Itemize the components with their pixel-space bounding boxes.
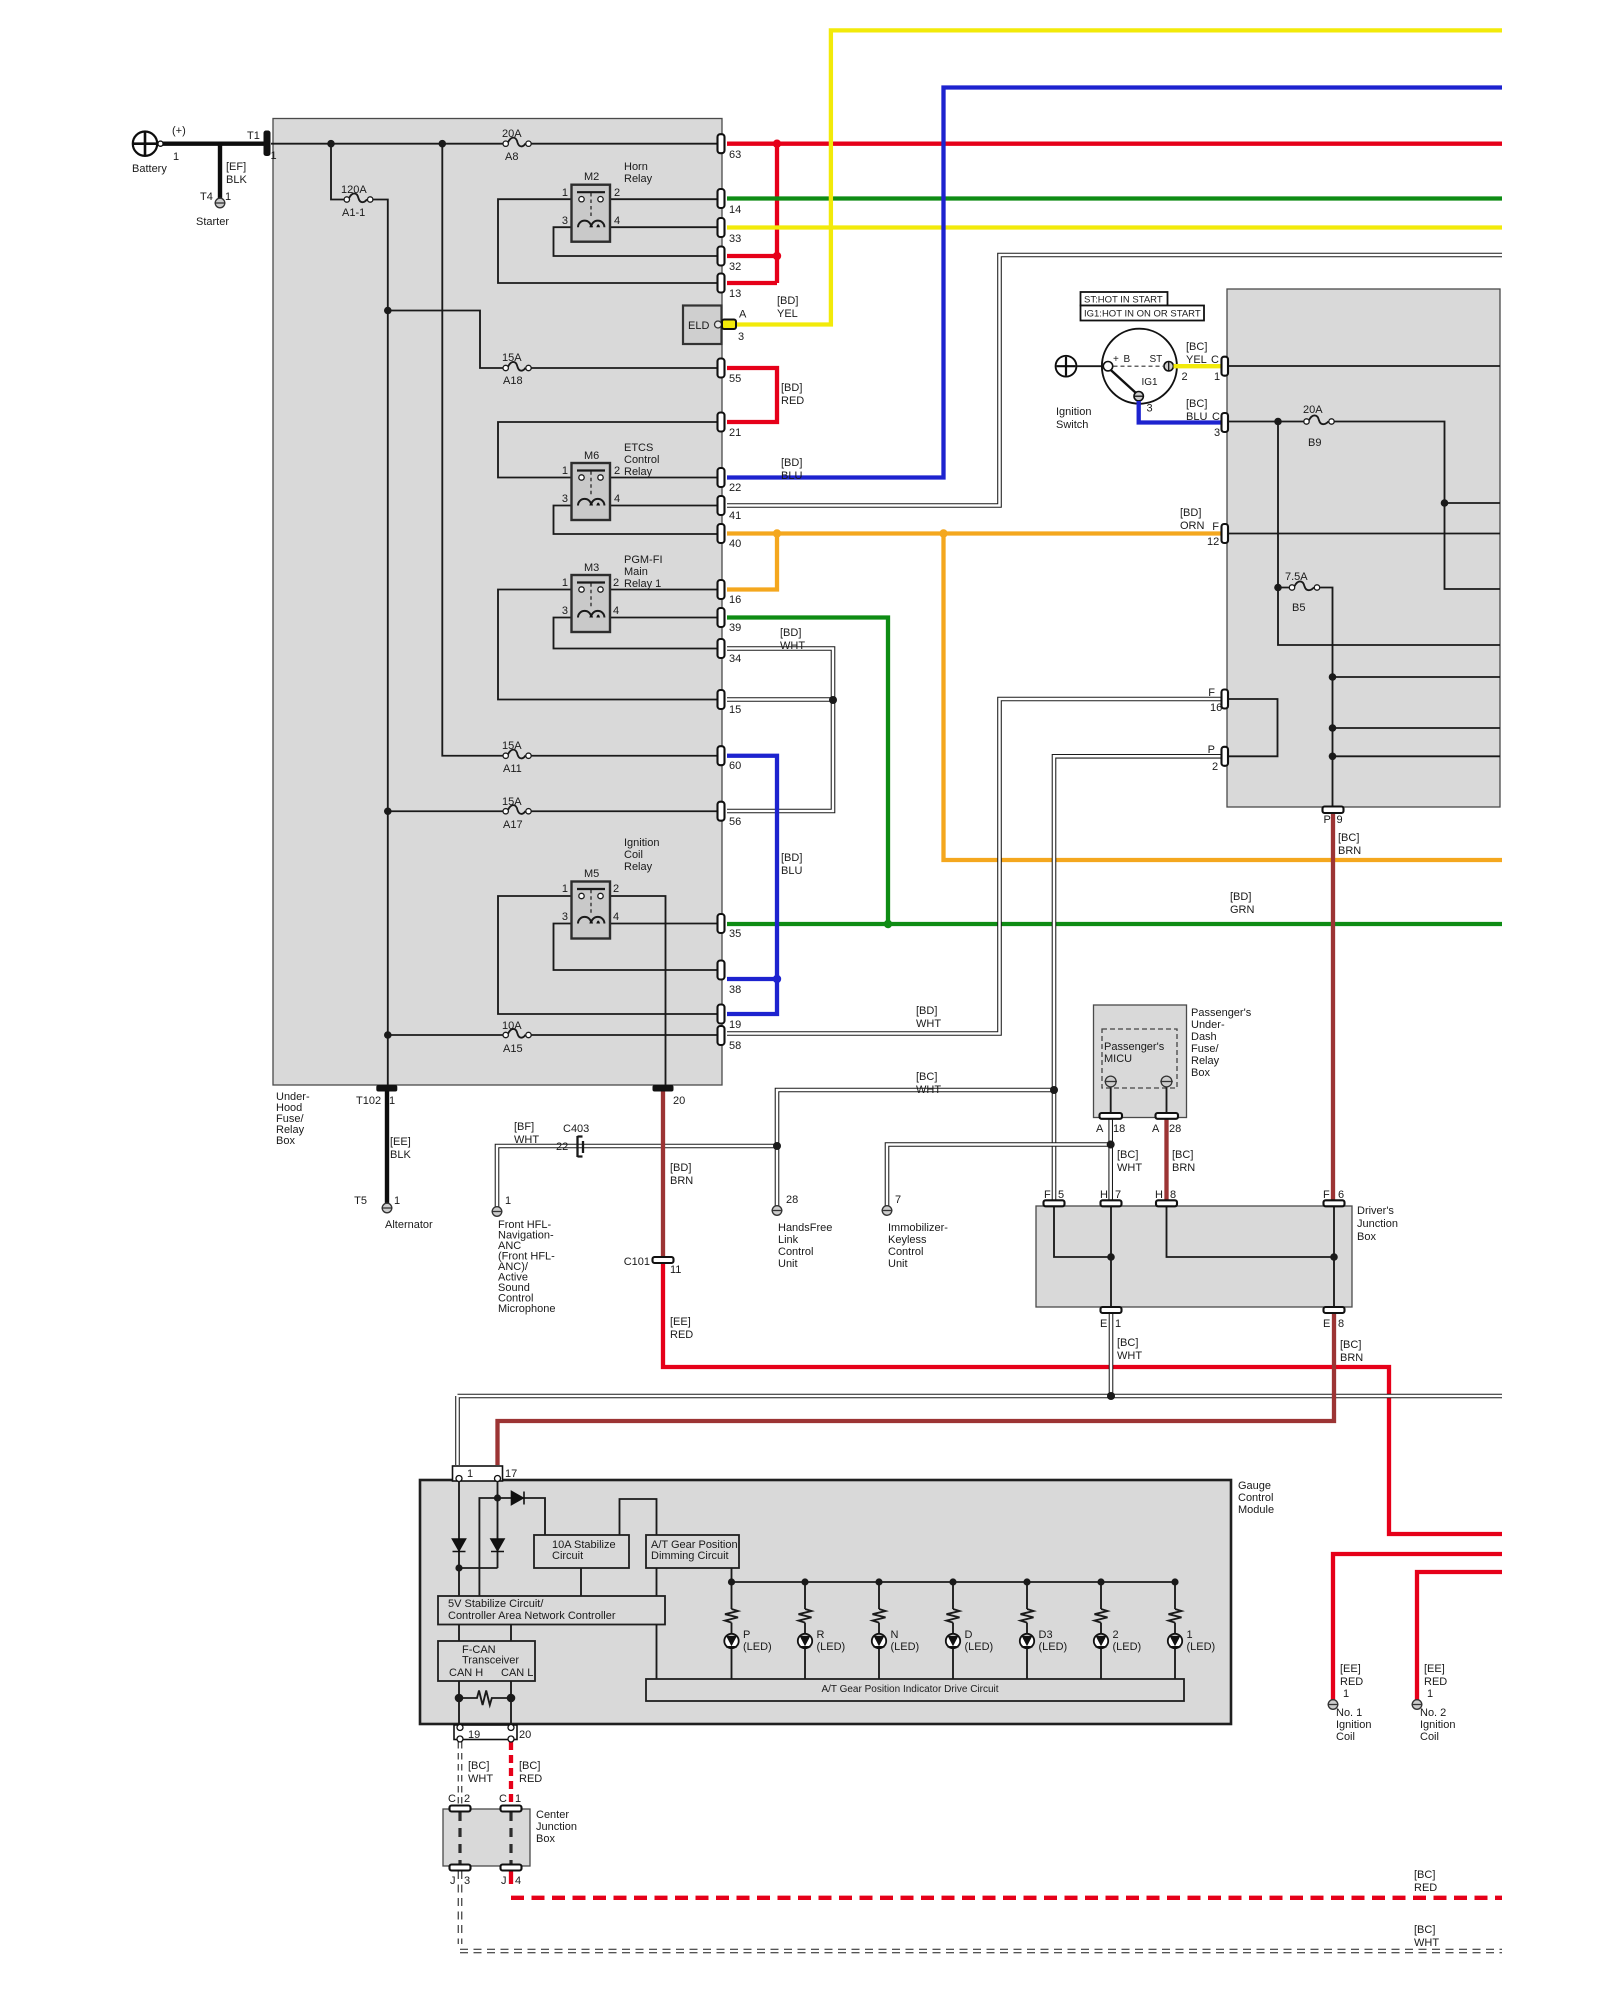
label fuse 15A A17: [502, 796, 523, 831]
svg-text:3: 3: [1147, 403, 1153, 415]
wire rail to 15A A18 to pin 55: [388, 311, 717, 369]
svg-text:RED: RED: [519, 1773, 542, 1785]
node red junction at pin32: [773, 252, 781, 260]
label J3 J4: [450, 1875, 521, 1887]
node white junction A18 line: [1107, 1141, 1115, 1149]
svg-text:28: 28: [1169, 1123, 1181, 1135]
svg-text:BLU: BLU: [781, 470, 802, 482]
svg-text:GRN: GRN: [1230, 904, 1255, 916]
svg-text:[EE]: [EE]: [1340, 1663, 1361, 1675]
wire C3 down to B5 fuse and right: [1278, 422, 1500, 646]
wire blue IG1 to C3: [1139, 401, 1221, 423]
svg-text:M6: M6: [584, 450, 599, 462]
svg-text:M2: M2: [584, 171, 599, 183]
svg-text:P: P: [1324, 814, 1331, 826]
svg-text:No. 1: No. 1: [1336, 1707, 1362, 1719]
svg-text:1: 1: [562, 883, 568, 895]
svg-text:ETCS: ETCS: [624, 442, 653, 454]
pin A18: [1100, 1113, 1123, 1119]
wire 5V box to indicator box: [656, 1625, 658, 1680]
pin 60: [718, 746, 725, 765]
fuse 15A A17: [503, 805, 531, 814]
label BC YEL C1: [1186, 341, 1220, 383]
node rail junction A15 branch: [384, 1031, 392, 1039]
svg-text:22: 22: [556, 1141, 568, 1153]
wire white E1 net to gauge pin 1: [458, 1313, 1503, 1466]
under-dash fuse/relay box (right): [1227, 289, 1500, 807]
svg-text:1: 1: [515, 1793, 521, 1805]
node red junction at pin63 line: [773, 140, 781, 148]
svg-text:F: F: [1212, 521, 1219, 533]
wire dimming box to led bus: [731, 1568, 733, 1582]
svg-text:Horn: Horn: [624, 161, 648, 173]
pin 21: [718, 413, 725, 432]
label fuse 15A A11: [502, 740, 522, 775]
svg-text:(LED): (LED): [965, 1641, 994, 1653]
node white junction E1: [1107, 1392, 1115, 1400]
node blue junction pin38: [773, 975, 781, 983]
svg-text:CAN H: CAN H: [449, 1667, 483, 1679]
svg-text:3: 3: [562, 911, 568, 923]
svg-text:Immobilizer-: Immobilizer-: [888, 1222, 948, 1234]
svg-text:35: 35: [729, 928, 741, 940]
fuse 15A A18: [503, 362, 531, 371]
wire white immobilizer line: [887, 1145, 1111, 1207]
svg-text:B9: B9: [1308, 437, 1321, 449]
wire brown A28 to H8: [1164, 1119, 1168, 1202]
svg-text:YEL: YEL: [777, 308, 798, 320]
svg-text:BLU: BLU: [1186, 411, 1207, 423]
box A/T gear position indicator drive circuit: [646, 1679, 1184, 1701]
label BD BRN pin20: [670, 1162, 693, 1187]
svg-text:BLK: BLK: [390, 1149, 411, 1161]
svg-text:YEL: YEL: [1186, 354, 1207, 366]
wire yellow ST to C1: [1174, 364, 1222, 368]
svg-text:[EF]: [EF]: [226, 161, 246, 173]
svg-text:2: 2: [614, 465, 620, 477]
label F16 pin: [1208, 687, 1222, 714]
label LEDs: [743, 1629, 1215, 1653]
wire M3 pin1 to pin 15: [498, 590, 717, 700]
svg-text:(LED): (LED): [891, 1641, 920, 1653]
svg-text:Control: Control: [778, 1246, 813, 1258]
label EE BLK alternator: [390, 1136, 411, 1161]
terminal microphone 1: [492, 1207, 503, 1217]
connector block gauge pins 19/20: [454, 1725, 517, 1740]
svg-text:WHT: WHT: [1117, 1350, 1142, 1362]
connector pin 20 bottom: [653, 1085, 674, 1092]
pin P2: [1222, 747, 1229, 766]
box A/T gear position dimming circuit: [646, 1535, 739, 1568]
pin 55: [718, 359, 725, 378]
svg-text:Dash: Dash: [1191, 1031, 1217, 1043]
svg-text:WHT: WHT: [780, 640, 805, 652]
svg-text:Relay 1: Relay 1: [624, 578, 661, 590]
svg-text:[BC]: [BC]: [1186, 341, 1207, 353]
relay M5 ignition coil relay: [572, 882, 611, 939]
svg-text:J: J: [450, 1875, 456, 1887]
pin F5: [1044, 1200, 1065, 1206]
svg-text:A: A: [739, 309, 747, 321]
label BC BLU C3: [1186, 398, 1220, 439]
node diodes junction: [455, 1564, 462, 1571]
svg-text:C: C: [1211, 354, 1219, 366]
svg-text:41: 41: [729, 510, 741, 522]
wire brown pin20 to C101: [661, 1092, 665, 1258]
wire led bus: [732, 1581, 1176, 1583]
wire dashed red gauge pin20 to C1: [509, 1742, 513, 1806]
svg-text:PGM-FI: PGM-FI: [624, 554, 663, 566]
svg-text:5: 5: [1058, 1189, 1064, 1201]
label pin numbers fusebox: [729, 149, 741, 1052]
label BC BRN E8: [1340, 1339, 1363, 1364]
node pin17 junction: [494, 1494, 501, 1501]
svg-text:WHT: WHT: [1414, 1937, 1439, 1949]
svg-text:15A: 15A: [502, 796, 522, 808]
wire pin1 down through diode: [458, 1481, 460, 1596]
svg-text:1: 1: [1115, 1318, 1121, 1330]
label BC RED dashed: [1414, 1869, 1437, 1894]
wire white F16 to pin 58: [727, 699, 1222, 1034]
svg-text:20A: 20A: [1303, 404, 1323, 416]
svg-text:32: 32: [729, 261, 741, 273]
label BF WHT and C403: [514, 1121, 589, 1153]
svg-text:Circuit: Circuit: [552, 1550, 583, 1562]
svg-text:1: 1: [1343, 1688, 1349, 1700]
svg-text:Starter: Starter: [196, 216, 229, 228]
svg-text:BRN: BRN: [670, 1175, 693, 1187]
wire orange U to pin 16: [727, 534, 777, 590]
svg-text:Relay: Relay: [624, 861, 653, 873]
svg-text:63: 63: [729, 149, 741, 161]
node rail junction A17 branch: [384, 807, 392, 815]
svg-text:39: 39: [729, 622, 741, 634]
wire M2 pin2 to pin 14: [610, 198, 717, 200]
ELD pin A connector: [715, 321, 722, 328]
wire dashed white J3 down and right: [460, 1871, 1502, 1951]
svg-text:Control: Control: [624, 454, 659, 466]
pin 13: [718, 274, 725, 293]
label ignition switch: [1056, 354, 1188, 431]
svg-text:[BC]: [BC]: [468, 1760, 489, 1772]
svg-text:Relay: Relay: [624, 173, 653, 185]
svg-text:[BC]: [BC]: [1340, 1339, 1361, 1351]
node junction 677: [1329, 673, 1337, 681]
svg-text:Dimming Circuit: Dimming Circuit: [651, 1550, 729, 1562]
wire F12 row inside right box: [1227, 533, 1500, 535]
svg-text:15A: 15A: [502, 352, 522, 364]
wire 120A A1-1 branch to vertical rail: [331, 144, 388, 1085]
svg-text:A/T Gear Position Indicator Dr: A/T Gear Position Indicator Drive Circui…: [821, 1684, 998, 1695]
wire M5 coil pin4 to pin 35: [609, 923, 717, 925]
svg-text:F: F: [1208, 687, 1215, 699]
node bus junction 1: [327, 140, 335, 148]
svg-text:A18: A18: [503, 375, 523, 387]
svg-text:C: C: [499, 1793, 507, 1805]
svg-text:3: 3: [562, 215, 568, 227]
label C101: [624, 1256, 682, 1276]
passenger's MICU dashed box: [1102, 1029, 1177, 1088]
svg-text:20: 20: [519, 1729, 531, 1741]
wire red pin 63 feed: [727, 142, 1502, 146]
box F-CAN transceiver: [438, 1641, 535, 1681]
svg-text:[BD]: [BD]: [777, 295, 798, 307]
wire C3 through 20A B9 fuse: [1227, 422, 1500, 590]
svg-text:BRN: BRN: [1172, 1162, 1195, 1174]
box 10A stabilize circuit: [534, 1535, 629, 1568]
svg-text:A1-1: A1-1: [342, 207, 365, 219]
wire CAN H down to pin 19: [458, 1681, 460, 1724]
wire rail2 x442 down to 15A A11 to pin 60: [442, 144, 717, 756]
svg-text:M3: M3: [584, 562, 599, 574]
svg-text:28: 28: [786, 1194, 798, 1206]
label immobilizer: [888, 1194, 948, 1270]
connector C101: [653, 1257, 674, 1263]
svg-text:[EE]: [EE]: [1424, 1663, 1445, 1675]
label driver's box pins: [1044, 1189, 1344, 1330]
svg-text:WHT: WHT: [514, 1134, 539, 1146]
svg-text:Fuse/: Fuse/: [1191, 1043, 1219, 1055]
driver's junction box: [1036, 1206, 1352, 1307]
svg-text:[BD]: [BD]: [1180, 507, 1201, 519]
pin 34: [718, 639, 725, 658]
svg-text:Relay: Relay: [1191, 1055, 1220, 1067]
svg-text:R: R: [817, 1629, 825, 1641]
label A18 A28: [1096, 1123, 1181, 1135]
pin 33: [718, 218, 725, 237]
svg-text:2: 2: [614, 187, 620, 199]
label relay M2: [562, 161, 653, 227]
svg-text:1: 1: [225, 191, 231, 203]
svg-text:A: A: [1096, 1123, 1104, 1135]
svg-text:[BC]: [BC]: [1338, 832, 1359, 844]
node orange junction 2: [939, 529, 947, 537]
wire red stub to No.1 ignition coil: [1333, 1554, 1502, 1700]
label relay M6: [562, 442, 660, 505]
svg-text:14: 14: [729, 204, 741, 216]
svg-text:Box: Box: [1191, 1067, 1210, 1079]
label C2 C1: [448, 1793, 521, 1805]
node junction B5: [1274, 584, 1282, 592]
svg-text:1: 1: [562, 577, 568, 589]
gauge control module box: [420, 1480, 1231, 1724]
svg-text:Center: Center: [536, 1809, 569, 1821]
svg-text:120A: 120A: [341, 184, 367, 196]
svg-text:C403: C403: [563, 1123, 589, 1135]
label gauge pins top: [467, 1468, 517, 1480]
pin C3: [1222, 413, 1229, 432]
svg-text:Main: Main: [624, 566, 648, 578]
svg-text:Ignition: Ignition: [1336, 1719, 1371, 1731]
svg-text:[BC]: [BC]: [1117, 1149, 1138, 1161]
svg-text:Unit: Unit: [778, 1258, 798, 1270]
svg-text:4: 4: [515, 1875, 521, 1887]
svg-text:2: 2: [613, 883, 619, 895]
svg-text:No. 2: No. 2: [1420, 1707, 1446, 1719]
wire dashed red J4 down and right: [511, 1871, 1502, 1898]
svg-text:Module: Module: [1238, 1504, 1274, 1516]
box 5V stabilize circuit: [438, 1596, 665, 1625]
node green junction: [884, 920, 892, 928]
svg-text:[BD]: [BD]: [780, 627, 801, 639]
svg-text:BRN: BRN: [1340, 1352, 1363, 1364]
led branch 2: [1094, 1578, 1108, 1679]
svg-text:ELD: ELD: [688, 320, 709, 332]
svg-text:19: 19: [729, 1019, 741, 1031]
pin 41: [718, 496, 725, 515]
svg-text:RED: RED: [1340, 1676, 1363, 1688]
svg-text:+: +: [1113, 354, 1119, 365]
label BD ORN: [1180, 507, 1205, 532]
label BC BRN A28: [1172, 1149, 1195, 1174]
led branch N: [872, 1578, 886, 1679]
node white junction F5 line: [1050, 1086, 1058, 1094]
connector T102: [376, 1085, 397, 1092]
pin 15: [718, 690, 725, 709]
svg-text:38: 38: [729, 984, 741, 996]
svg-text:56: 56: [729, 816, 741, 828]
svg-text:2: 2: [1182, 371, 1188, 383]
node junction B9 branch: [1441, 499, 1449, 507]
svg-text:8: 8: [1170, 1189, 1176, 1201]
svg-text:4: 4: [614, 493, 620, 505]
pin 16: [718, 580, 725, 599]
svg-text:(LED): (LED): [1113, 1641, 1142, 1653]
wire green pin 14: [727, 196, 1502, 200]
wire yellow ELD to top edge: [736, 30, 1502, 324]
wire pin 21 to M6 pin1: [498, 422, 717, 478]
wire white pin 41 up to top right: [727, 255, 1502, 506]
svg-text:20A: 20A: [502, 128, 522, 140]
wire 5V box to F-CAN (CAN L): [510, 1625, 512, 1642]
wire bus T1 to fuse A8 to pin 63: [271, 143, 717, 145]
wire F5 to H7 inside driver's box: [1054, 1206, 1111, 1307]
svg-text:(LED): (LED): [1187, 1641, 1216, 1653]
svg-text:Relay: Relay: [624, 466, 653, 478]
label BD BLU pin22: [781, 457, 802, 482]
svg-text:Box: Box: [1357, 1231, 1376, 1243]
svg-text:M5: M5: [584, 868, 599, 880]
led branch D: [946, 1578, 960, 1679]
led branch D3: [1020, 1578, 1034, 1679]
svg-text:A: A: [1152, 1123, 1160, 1135]
label BC BRN P9: [1338, 832, 1361, 857]
wire white P2 left and down to F5: [1054, 756, 1222, 1201]
svg-text:T102: T102: [356, 1095, 381, 1107]
wire H8 to F6 inside driver's box: [1167, 1206, 1335, 1307]
svg-text:Switch: Switch: [1056, 419, 1088, 431]
svg-text:B5: B5: [1292, 602, 1305, 614]
svg-text:7: 7: [895, 1194, 901, 1206]
label relay M5: [562, 837, 660, 923]
svg-text:40: 40: [729, 538, 741, 550]
pin C1: [1222, 357, 1229, 376]
svg-text:55: 55: [729, 373, 741, 385]
fuse 20A A8: [503, 138, 531, 147]
label BC WHT A18: [1117, 1149, 1142, 1174]
fuse 15A A11: [503, 750, 531, 759]
wire yellow pin 33: [727, 225, 1502, 229]
label P9 pin: [1324, 814, 1343, 826]
wire blue pin 22 up and right: [727, 88, 1502, 478]
wire dashed white gauge pin19 to C2: [458, 1742, 463, 1806]
wire white pins 34/15/56 net: [727, 649, 833, 812]
svg-text:[BC]: [BC]: [1414, 1869, 1435, 1881]
svg-text:3: 3: [464, 1875, 470, 1887]
label ELD: [688, 295, 798, 343]
svg-text:F: F: [1044, 1189, 1051, 1201]
wire F16-P2 U inside right box: [1227, 699, 1278, 756]
svg-text:1: 1: [389, 1095, 395, 1107]
label F-CAN: [449, 1644, 533, 1679]
svg-text:1: 1: [394, 1195, 400, 1207]
wire pin17 node to 5V box (left branch): [479, 1498, 497, 1596]
svg-text:RED: RED: [781, 395, 804, 407]
node junction H7-E1: [1107, 1253, 1115, 1261]
wire blue pin 60 down to pin 19: [727, 756, 777, 1014]
svg-text:Box: Box: [276, 1135, 295, 1147]
wire dashed dark C2 to J3 inside center box: [458, 1812, 461, 1864]
svg-text:4: 4: [613, 911, 619, 923]
wire M3 coil pin4 to pin 39: [609, 617, 717, 619]
wire 5V box to F-CAN (CAN H): [458, 1625, 460, 1642]
svg-text:Passenger's: Passenger's: [1104, 1041, 1165, 1053]
svg-text:58: 58: [729, 1040, 741, 1052]
svg-text:E: E: [1100, 1318, 1107, 1330]
node white junction pin15: [829, 696, 837, 704]
diode D3 (right): [512, 1492, 525, 1505]
svg-text:(LED): (LED): [1039, 1641, 1068, 1653]
wire 10A box to 5V box: [580, 1568, 582, 1596]
svg-text:Ignition: Ignition: [624, 837, 659, 849]
label fuse 20A A8: [502, 128, 522, 163]
svg-text:8: 8: [1338, 1318, 1344, 1330]
wire dimming box to 5V box: [656, 1568, 658, 1596]
label fuse 120A A1-1: [341, 184, 367, 219]
svg-text:20: 20: [673, 1095, 685, 1107]
svg-text:Junction: Junction: [1357, 1218, 1398, 1230]
node orange junction 1: [773, 529, 781, 537]
svg-text:Unit: Unit: [888, 1258, 908, 1270]
svg-text:2: 2: [613, 577, 619, 589]
diode D2 (down): [491, 1539, 504, 1552]
label no2 ignition coil: [1420, 1663, 1455, 1743]
svg-text:10A: 10A: [502, 1020, 522, 1032]
wire starter branch T4: [218, 144, 222, 198]
svg-text:RED: RED: [1424, 1676, 1447, 1688]
wire M6 coil pin3 wrap to pin 40: [554, 506, 718, 535]
svg-text:18: 18: [1113, 1123, 1125, 1135]
wire M6 pin2 to pin 22: [610, 477, 717, 479]
label BC WHT E1: [1117, 1337, 1142, 1362]
svg-text:16: 16: [1210, 702, 1222, 714]
svg-text:6: 6: [1338, 1189, 1344, 1201]
label BD GRN: [1230, 891, 1255, 916]
svg-text:T1: T1: [247, 130, 260, 142]
node white junction handsfree: [773, 1142, 781, 1150]
wire 7.5A B5 to P9 vertical: [1281, 588, 1500, 808]
pin 19: [718, 1005, 725, 1024]
pin 56: [718, 802, 725, 821]
relay M2 horn relay: [572, 185, 611, 242]
label no1 ignition coil: [1336, 1663, 1371, 1743]
label F12 pin: [1207, 521, 1219, 548]
svg-text:(LED): (LED): [743, 1641, 772, 1653]
svg-text:15A: 15A: [502, 740, 522, 752]
svg-text:3: 3: [1214, 427, 1220, 439]
svg-text:13: 13: [729, 288, 741, 300]
svg-text:1: 1: [173, 151, 179, 163]
